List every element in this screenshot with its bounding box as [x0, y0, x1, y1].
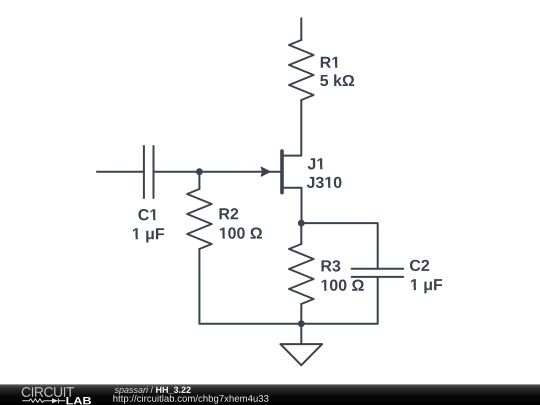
label C1	[138, 209, 157, 220]
footer url line	[113, 395, 268, 404]
logo icon resistor-diode wire	[22, 398, 65, 403]
wire drain lead to JFET	[284, 100, 301, 156]
digit one serif masks	[132, 65, 419, 292]
wire R3 top lead	[300, 223, 302, 244]
label C2	[410, 260, 429, 271]
logo CIRCUIT	[22, 387, 74, 397]
value 5 kOhm	[320, 74, 354, 86]
capacitor C1	[144, 146, 154, 198]
label J1	[308, 158, 325, 169]
capacitor C2	[352, 269, 404, 277]
wire R3 bottom lead	[300, 304, 302, 324]
wire R2 bottom lead and bottom rail to C2	[199, 249, 377, 324]
value 1 uF C2	[411, 279, 442, 293]
wire source node to C2	[301, 223, 377, 269]
footer author line	[115, 386, 154, 394]
label R3	[321, 260, 340, 271]
ground	[280, 344, 322, 365]
node gate junction	[196, 168, 203, 175]
label R1	[321, 57, 340, 68]
resistor R1	[289, 40, 314, 100]
wire gate input left of C1	[97, 171, 144, 173]
transistor J1 channel bar	[280, 151, 284, 193]
wire ground stub	[300, 324, 302, 344]
resistor R2	[187, 189, 212, 249]
node source junction	[298, 220, 305, 227]
value 1 uF	[133, 228, 164, 242]
logo diode triangle	[52, 398, 58, 403]
wire R2 top lead	[198, 172, 200, 189]
wire gate from C1 to JFET	[154, 171, 281, 173]
label R2	[219, 208, 238, 219]
wire source lead	[284, 188, 302, 223]
value 100 Ohm R3	[321, 280, 363, 291]
wire drain top lead	[300, 18, 302, 40]
gate arrow	[261, 167, 270, 176]
logo LAB	[66, 397, 91, 404]
resistor R3	[289, 244, 314, 304]
value 100 Ohm	[220, 227, 262, 238]
value J310	[307, 177, 342, 188]
node bottom junction	[298, 320, 305, 327]
